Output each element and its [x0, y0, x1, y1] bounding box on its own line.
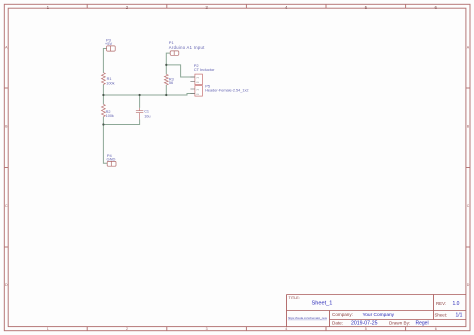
svg-text:C: C	[467, 204, 470, 208]
pin 2 stub P5	[190, 93, 195, 95]
resistor R2	[102, 104, 106, 116]
svg-text:P5: P5	[205, 83, 211, 88]
svg-text:4: 4	[285, 327, 287, 331]
wire: node to P4 GND	[103, 125, 107, 164]
pin 1 stub P5	[190, 88, 195, 90]
capacitor C1	[136, 108, 143, 120]
svg-text:REV:: REV:	[436, 301, 446, 306]
wire: C1 top to horizontal net	[139, 95, 141, 108]
svg-text:5: 5	[365, 327, 367, 331]
ground connector P4 (GND)	[107, 161, 116, 166]
svg-text:1: 1	[47, 327, 49, 331]
svg-text:5: 5	[365, 5, 368, 10]
svg-text:R1: R1	[107, 77, 112, 81]
junction: R2 bottom / GND	[102, 123, 104, 125]
svg-text:+5V: +5V	[105, 41, 113, 46]
svg-text:2019-07-25: 2019-07-25	[351, 321, 378, 327]
svg-text:100k: 100k	[106, 81, 114, 85]
power connector P3 (+5V)	[107, 46, 116, 51]
wire: R3 top junction to P2 pin 1	[166, 65, 195, 77]
wire: R2 top stub	[102, 95, 104, 104]
svg-text:GND: GND	[107, 157, 116, 162]
svg-text:2: 2	[126, 327, 128, 331]
junction: R3 bottom	[165, 94, 167, 96]
svg-text:CT Inductor: CT Inductor	[194, 67, 215, 72]
svg-text:Date:: Date:	[332, 321, 343, 326]
connector P1 (Arduino A1 Input)	[170, 51, 179, 55]
svg-text:Regel: Regel	[416, 321, 429, 327]
svg-text:1: 1	[47, 5, 50, 10]
svg-text:3: 3	[206, 327, 208, 331]
svg-text:1/1: 1/1	[456, 312, 463, 318]
svg-text:Arduino A1 Input: Arduino A1 Input	[169, 45, 205, 50]
svg-text:6: 6	[435, 327, 437, 331]
header P5 (Header-Female-2.54_1x2)	[190, 86, 202, 97]
svg-text:100k: 100k	[106, 114, 114, 118]
svg-text:B: B	[467, 125, 470, 129]
title block	[287, 295, 466, 327]
resistor R1	[102, 73, 106, 85]
wire: R2 bottom to ground net	[102, 117, 104, 125]
wire: R1 bottom to node junction	[102, 84, 104, 95]
junction: R1/R2/net	[102, 94, 104, 96]
svg-text:D: D	[467, 283, 470, 287]
svg-text:B: B	[5, 125, 8, 129]
svg-text:Sheet:: Sheet:	[435, 312, 448, 317]
svg-text:Sheet_1: Sheet_1	[312, 300, 333, 306]
pin 2 stub P2	[190, 81, 195, 83]
svg-text:1.0: 1.0	[453, 301, 460, 307]
svg-text:4: 4	[285, 5, 288, 10]
svg-text:A: A	[467, 45, 470, 49]
svg-text:56: 56	[169, 81, 173, 85]
svg-text:Drawn By:: Drawn By:	[389, 321, 410, 326]
svg-text:D: D	[5, 283, 8, 287]
svg-text:C: C	[5, 204, 8, 208]
junction: P1 / R3 / P2 branch	[165, 64, 167, 66]
svg-text:6: 6	[434, 5, 437, 10]
svg-text:Your Company: Your Company	[363, 312, 395, 318]
wire: P1 pin down to R3 top junction	[166, 53, 170, 74]
svg-text:2: 2	[126, 5, 129, 10]
svg-text:https://lceda.cn/schematic_new: https://lceda.cn/schematic_new	[288, 316, 328, 320]
svg-text:A: A	[5, 45, 8, 49]
wire: ground net horizontal under C1	[103, 120, 139, 125]
svg-text:Header-Female-2.54_1x2: Header-Female-2.54_1x2	[205, 89, 248, 93]
svg-text:Company:: Company:	[332, 312, 353, 317]
header P2 (CT Inductor)	[190, 74, 202, 85]
junction: C1 top	[139, 94, 141, 96]
resistor R3	[164, 74, 168, 85]
wire: horizontal net R1/R2/C1/R3/P5.2	[103, 94, 194, 96]
svg-text:10u: 10u	[144, 114, 150, 118]
wire: R3 bottom to horizontal net	[165, 85, 167, 95]
svg-text:TITLE:: TITLE:	[289, 296, 300, 300]
svg-text:C1: C1	[144, 110, 149, 114]
wire: P3 pin to R1 top	[103, 49, 106, 73]
svg-text:3: 3	[205, 5, 208, 10]
pin 1 stub P2	[190, 76, 195, 78]
